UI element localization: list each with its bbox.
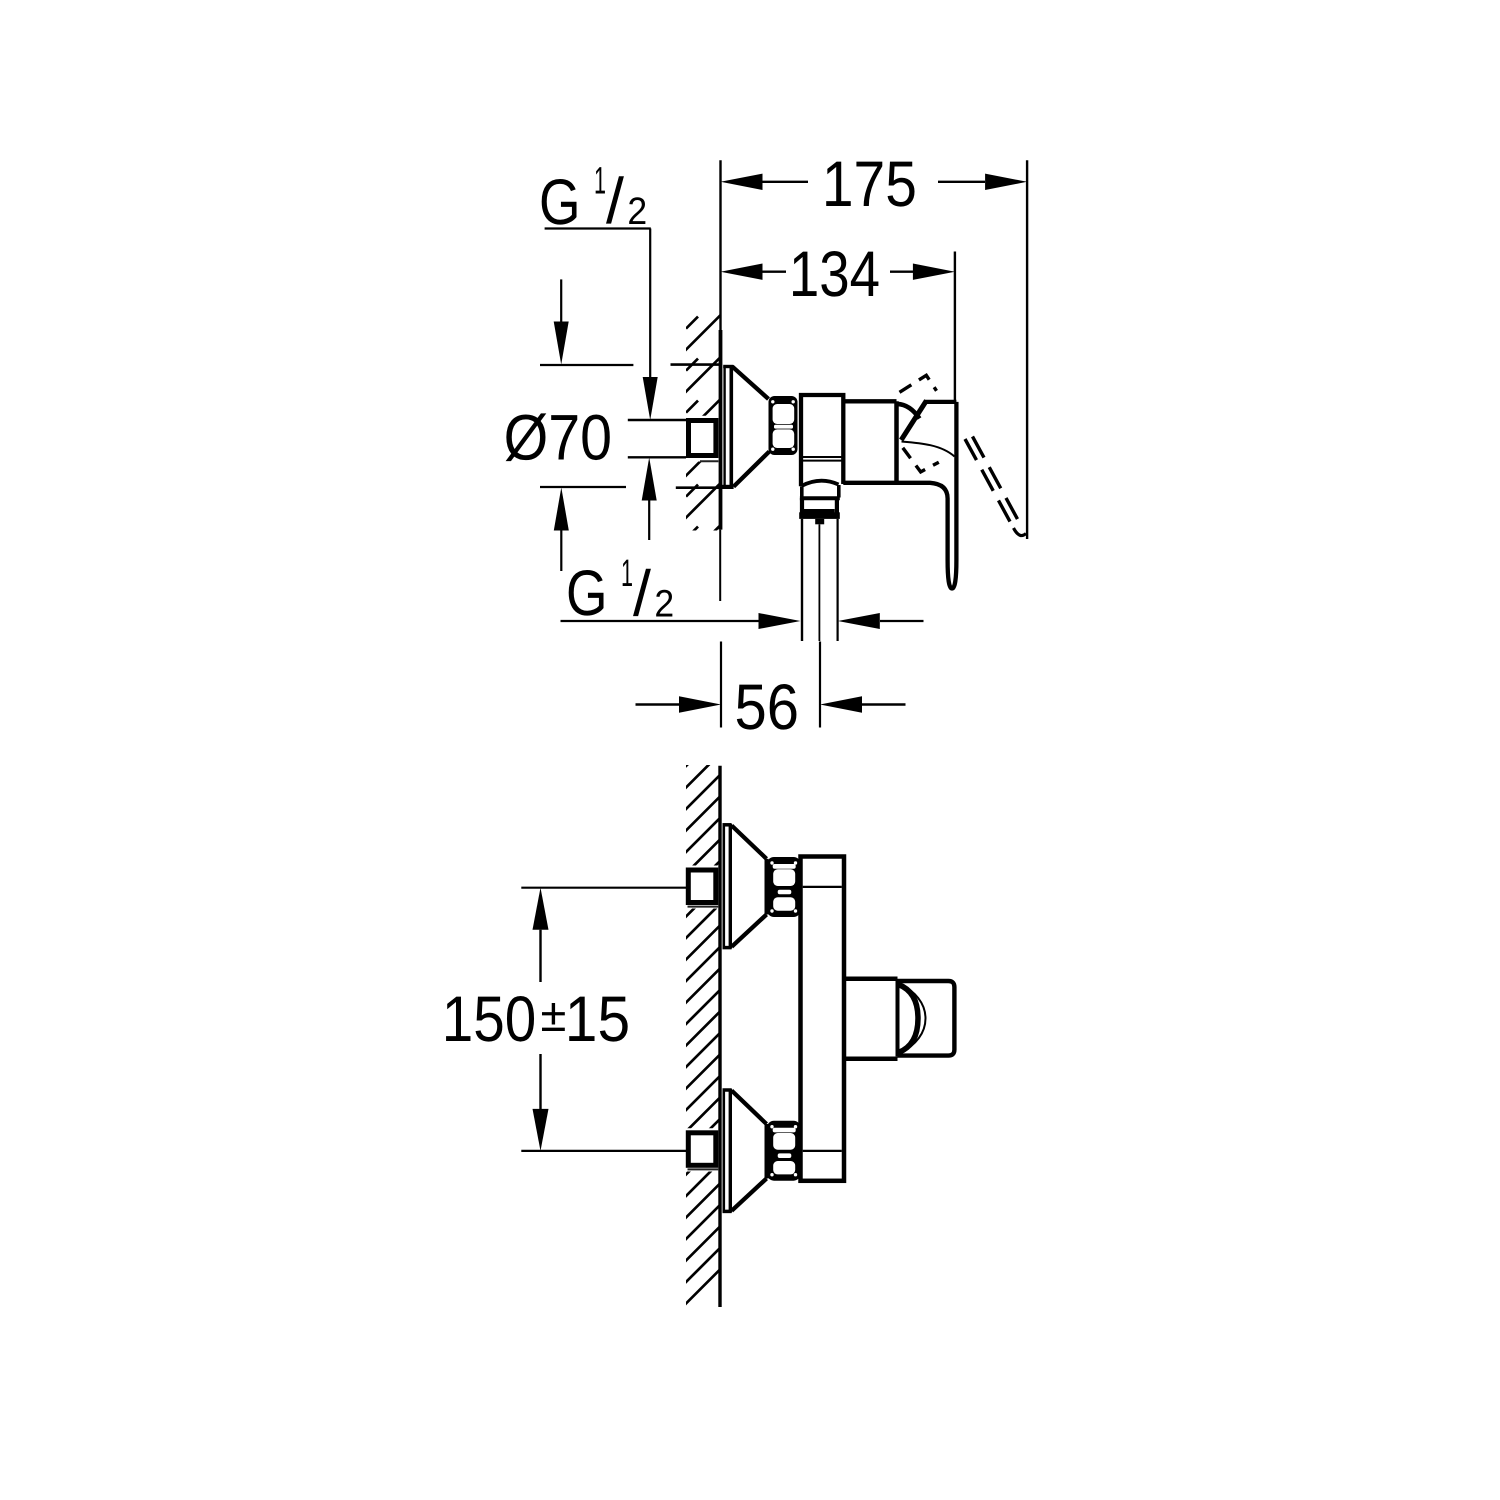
front block step line 2: [803, 460, 842, 462]
handle top edge: [924, 400, 956, 404]
escutcheon plate left line (top view): [723, 366, 725, 487]
outlet thread right wall: [835, 498, 839, 513]
G 1/2 bottom left arrowhead (right): [759, 613, 801, 629]
svg-text:1: 1: [621, 552, 633, 595]
outlet thread divider line: [804, 509, 835, 513]
pipe silhouette line under upper square (front view): [688, 906, 719, 908]
label G 1/2 top underline leader: [545, 227, 651, 229]
dimension 56 right arrow tail: [862, 703, 906, 705]
svg-text:1: 1: [594, 159, 606, 202]
handle right edge + grip: [843, 402, 956, 589]
dia70 upper arrow tail: [560, 279, 562, 321]
dimension 150 lower arrowhead (down): [533, 1109, 549, 1151]
svg-text:±: ±: [541, 988, 567, 1041]
front block step line 1: [803, 456, 842, 458]
svg-text:15: 15: [565, 983, 630, 1055]
lower hex nut (front view): [767, 1121, 801, 1181]
dimension 175 right arrowhead: [985, 174, 1027, 190]
label G 1/2 top leader arrowhead (down): [643, 377, 658, 420]
label G 1/2 top leader vertical: [649, 229, 651, 379]
hose left line: [801, 519, 803, 641]
dia70 lower extension line: [540, 486, 626, 488]
handle neck top line (front view): [846, 976, 898, 981]
dimension 134 left arrowhead: [721, 264, 763, 280]
svg-text:175: 175: [822, 148, 917, 220]
upper escutcheon plate bottom cap: [723, 946, 732, 950]
upper escutcheon plate right line (front view): [729, 824, 732, 949]
escutcheon cone bottom slant (top view): [734, 452, 770, 487]
dimension 150 line lower segment: [539, 1054, 541, 1109]
dimension 56 left extension line: [720, 642, 722, 728]
upper hex nut (front view): [767, 857, 801, 917]
dashed lever tip hook: [1014, 528, 1027, 536]
extension line right 175 (handle tip): [1026, 160, 1028, 539]
dashed lever line B: [973, 437, 1022, 526]
hex nut (top view): [769, 396, 798, 455]
pipe lower arrow tail: [648, 500, 650, 540]
G 1/2 bottom right arrowhead (left): [838, 613, 880, 629]
dimension 150 line upper segment: [539, 930, 541, 982]
lower escutcheon plate right line (front view): [729, 1089, 732, 1213]
mixer body plate outline (front view): [801, 857, 845, 1181]
escutcheon cone top slant (top view): [732, 366, 769, 399]
pipe silhouette line under lower square (front view): [688, 1168, 719, 1170]
dashed lower V: [903, 448, 939, 472]
svg-text:/: /: [633, 557, 651, 629]
handle cap dome arc thin: [899, 983, 926, 1055]
body lower inlet center line: [803, 1150, 842, 1152]
dia70 upper arrowhead (down): [554, 322, 569, 365]
dia70 lower arrowhead (up): [554, 488, 569, 531]
dimension 134 right arrowhead: [913, 264, 955, 280]
outlet neck right wall: [837, 485, 841, 498]
dashed handle raised : diamond: [900, 375, 937, 392]
thin parting curve: [902, 442, 955, 457]
label G 1/2 bottom underline leader: [561, 620, 759, 622]
dia70 lower arrow tail: [560, 530, 562, 571]
handle cap dome arc thick: [899, 985, 919, 1053]
mixer front block outline (top view): [801, 395, 843, 486]
outlet thread left wall: [800, 498, 804, 513]
dimension 150 lower extension line: [521, 1150, 686, 1152]
hose right line: [836, 519, 838, 641]
svg-text:Ø70: Ø70: [504, 402, 612, 474]
dashed lever line A: [965, 439, 1014, 528]
dimension 56 right arrowhead (left): [820, 696, 862, 712]
svg-text:134: 134: [789, 238, 880, 310]
lower square union (front view): [688, 1133, 716, 1166]
dimension 175 line right segment: [938, 181, 985, 183]
dimension 150 upper arrowhead (up): [533, 888, 549, 930]
dimension 134 line right segment: [890, 271, 913, 273]
svg-text:G: G: [539, 166, 581, 238]
pipe silhouette line under square (top view): [700, 460, 718, 462]
handle cap outline (front view): [898, 981, 955, 1056]
dimension 56 left arrow tail: [636, 703, 680, 705]
dimension 56 right extension line: [819, 642, 821, 728]
upper escutcheon cone right edge: [765, 859, 769, 915]
wall hatching top view: [680, 310, 726, 566]
pipe upper line (top view): [628, 419, 686, 421]
svg-text:56: 56: [735, 671, 800, 743]
svg-text:150: 150: [442, 983, 537, 1055]
outlet cap line: [800, 496, 840, 500]
wall line upper thin part: [719, 160, 721, 330]
rear housing top edge (top view): [843, 399, 896, 403]
dia70 upper extension line: [540, 364, 633, 366]
lower escutcheon plate left line (front view): [722, 1089, 725, 1213]
extension line right 134: [954, 252, 956, 401]
dimension 175 left arrowhead: [721, 174, 763, 190]
pipe lower arrowhead (up): [642, 458, 657, 501]
upper square union (front view): [688, 870, 716, 903]
svg-text:2: 2: [654, 583, 674, 626]
G 1/2 bottom right arrow tail: [880, 620, 924, 622]
escutcheon plate right line (top view): [729, 366, 733, 487]
hose center line: [818, 524, 820, 641]
wall line: [718, 766, 721, 1307]
svg-text:G: G: [566, 557, 608, 629]
body upper inlet center line: [803, 886, 842, 888]
outlet centerline tick: [815, 519, 824, 524]
escutcheon plate top cap (top view): [723, 365, 733, 368]
dimension 56 left arrowhead (right): [679, 696, 721, 712]
outlet thread black band: [799, 512, 840, 519]
square union (top view): [689, 421, 716, 456]
outlet neck left wall: [800, 487, 804, 498]
handle neck bottom line (front view): [846, 1057, 898, 1062]
escutcheon plate bottom cap (top view): [719, 485, 734, 489]
lower escutcheon plate bottom cap: [723, 1210, 732, 1214]
dimension 134 line left segment: [762, 271, 786, 273]
upper escutcheon cone top slant: [732, 826, 767, 859]
pipe lower line (top view): [628, 456, 686, 458]
svg-text:2: 2: [627, 190, 647, 233]
wall hatching bottom view: [680, 726, 726, 1310]
rear housing right edge (top view): [894, 401, 899, 481]
wall hole lower seat line (top view): [676, 486, 719, 489]
lower escutcheon cone top slant: [732, 1091, 767, 1125]
lower escutcheon cone bottom slant: [732, 1179, 767, 1211]
cartridge dome arc: [897, 404, 919, 419]
lower escutcheon plate top cap: [723, 1088, 732, 1092]
svg-text:/: /: [606, 165, 624, 237]
outlet dome arc: [802, 481, 839, 486]
dimension 150 upper extension line: [521, 887, 686, 889]
wall line thick part: [719, 330, 723, 530]
upper escutcheon plate top cap: [723, 823, 732, 827]
wall hole upper seat line (top view): [671, 363, 720, 366]
lower escutcheon cone right edge: [765, 1124, 769, 1179]
wall line lower thin part: [719, 530, 721, 601]
handle cap divider (front view): [896, 980, 900, 1056]
handle neck slant: [901, 401, 926, 440]
dimension 175 line left segment: [762, 181, 808, 183]
upper escutcheon cone bottom slant: [732, 915, 767, 947]
upper escutcheon plate left line (front view): [722, 824, 725, 949]
